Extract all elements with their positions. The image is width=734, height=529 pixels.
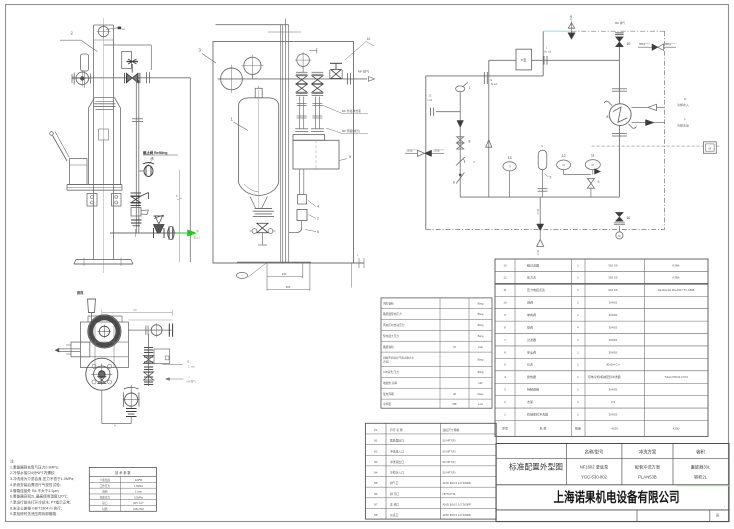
svg-text:304SS: 304SS xyxy=(609,350,618,354)
svg-text:30: 30 xyxy=(453,392,456,396)
svg-text:容积: 容积 xyxy=(102,490,108,494)
svg-text:许值): 许值) xyxy=(383,359,389,363)
svg-text:10: 10 xyxy=(367,37,371,41)
svg-text:冷却水入口: 冷却水入口 xyxy=(390,471,404,475)
svg-text:名称/型号: 名称/型号 xyxy=(585,449,604,456)
svg-text:5.管路连接处 Ra 不大于3.2μm;: 5.管路连接处 Ra 不大于3.2μm; xyxy=(10,488,59,493)
svg-text:11: 11 xyxy=(503,288,506,292)
svg-text:电加热 功率: 电加热 功率 xyxy=(383,381,397,385)
svg-text:70: 70 xyxy=(453,345,456,349)
svg-text:Barg: Barg xyxy=(478,301,484,305)
svg-text:容积2L: 容积2L xyxy=(694,474,708,481)
svg-text:r rod: r rod xyxy=(427,99,433,102)
svg-text:N1: N1 xyxy=(374,439,378,443)
svg-text:3: 3 xyxy=(598,180,600,184)
svg-text:压力表: 压力表 xyxy=(527,275,536,280)
svg-text:磁过滤器: 磁过滤器 xyxy=(527,262,539,267)
svg-text:特制阀组: 特制阀组 xyxy=(527,387,539,392)
svg-text:俯视: 俯视 xyxy=(77,290,84,295)
svg-text:蓄能器30L: 蓄能器30L xyxy=(691,464,711,471)
svg-text:N4 排气: N4 排气 xyxy=(187,380,197,384)
svg-text:50 NPT(F): 50 NPT(F) xyxy=(443,471,456,475)
svg-text:周围环境温度(不超过最大允: 周围环境温度(不超过最大允 xyxy=(383,355,414,359)
svg-text:304SS: 304SS xyxy=(609,412,618,416)
svg-text:N8: N8 xyxy=(374,513,378,517)
svg-text:2.冷却水接口4分NPT内螺纹;: 2.冷却水接口4分NPT内螺纹; xyxy=(10,470,56,475)
svg-text:MF 排气: MF 排气 xyxy=(615,21,626,25)
svg-text:连接尺寸规格: 连接尺寸规格 xyxy=(443,428,460,432)
svg-text:316 SS: 316 SS xyxy=(608,263,618,267)
svg-text:压力电接点表: 压力电接点表 xyxy=(527,287,545,292)
svg-text:N5: N5 xyxy=(374,481,378,485)
svg-text:304SS: 304SS xyxy=(609,338,618,342)
svg-text:6: 6 xyxy=(317,230,319,234)
svg-text:换热器: 换热器 xyxy=(527,374,536,379)
svg-text:4.系统安装后需进行气密性试验;: 4.系统安装后需进行气密性试验; xyxy=(10,482,61,487)
svg-text:4: 4 xyxy=(317,205,319,209)
svg-text:仪表口: 仪表口 xyxy=(390,513,399,517)
svg-text:FI: FI xyxy=(562,163,565,167)
svg-text:200水: 200水 xyxy=(407,148,414,152)
svg-text:PLAN53B: PLAN53B xyxy=(638,475,657,480)
svg-text:介质温度: 介质温度 xyxy=(100,478,111,482)
svg-text:NPT1/2"M: NPT1/2"M xyxy=(443,492,456,496)
svg-text:接口: 接口 xyxy=(102,501,108,505)
svg-text:Barg: Barg xyxy=(478,334,484,338)
svg-text:冲洗液入口: 冲洗液入口 xyxy=(390,449,404,453)
svg-text:上海诺果机电设备有限公司: 上海诺果机电设备有限公司 xyxy=(554,489,680,505)
svg-text:P1: P1 xyxy=(374,428,378,432)
svg-text:KSBA: KSBA xyxy=(672,276,679,280)
svg-text:冷却水出: 冷却水出 xyxy=(677,123,689,128)
svg-text:泵体冷却/机械密封冲洗器: 泵体冷却/机械密封冲洗器 xyxy=(588,374,621,379)
svg-text:工作压力: 工作压力 xyxy=(100,484,111,488)
svg-text:13: 13 xyxy=(508,156,512,160)
svg-text:数量: 数量 xyxy=(575,426,581,431)
svg-text:CS: CS xyxy=(611,400,615,404)
svg-text:8: 8 xyxy=(469,140,471,144)
svg-text:⊥: ⊥ xyxy=(356,253,359,257)
svg-text:闸阀: 闸阀 xyxy=(527,300,533,305)
svg-text:ANSI B16.5 1/2"300RF: ANSI B16.5 1/2"300RF xyxy=(443,513,472,517)
svg-text:蓄能器接口: 蓄能器接口 xyxy=(390,439,404,443)
svg-text:10: 10 xyxy=(627,42,631,46)
svg-text:E: E xyxy=(188,360,190,364)
svg-text:Reinforced 30s A517 T3, 1898: Reinforced 30s A517 T3, 1898 xyxy=(658,288,695,292)
svg-text:排 污口: 排 污口 xyxy=(390,492,399,496)
svg-text:容积: 容积 xyxy=(696,449,705,456)
svg-text:Barg: Barg xyxy=(478,370,484,374)
svg-text:50 NPT(F): 50 NPT(F) xyxy=(443,439,456,443)
svg-text:kW: kW xyxy=(479,381,483,385)
svg-text:Barg: Barg xyxy=(478,358,484,362)
svg-text:240: 240 xyxy=(282,272,287,276)
svg-text:机械密封冲洗罐: 机械密封冲洗罐 xyxy=(527,411,548,416)
svg-text:9.泵检修时先泄压再拆卸管路.: 9.泵检修时先泄压再拆卸管路. xyxy=(10,511,57,516)
svg-text:ANSI B16.5 1/2"300RF: ANSI B16.5 1/2"300RF xyxy=(443,502,472,506)
svg-text:预充压力: 预充压力 xyxy=(100,495,111,499)
svg-text:CIP清洗 压力: CIP清洗 压力 xyxy=(383,370,399,374)
svg-text:N6: N6 xyxy=(374,492,378,496)
svg-text:截止阀 Refilling: 截止阀 Refilling xyxy=(143,150,168,155)
svg-text:380: 380 xyxy=(286,285,291,289)
svg-text:MF 排气: MF 排气 xyxy=(358,69,369,74)
svg-text:安全阀: 安全阀 xyxy=(527,349,536,354)
svg-text:6.蓄能器容积2L,最高使用温度120℃;: 6.蓄能器容积2L,最高使用温度120℃; xyxy=(10,494,68,499)
svg-text:MF 预留(排污): MF 预留(排污) xyxy=(342,129,360,133)
svg-text:11: 11 xyxy=(591,154,595,158)
svg-text:XX: XX xyxy=(133,309,137,312)
svg-text:一: 一 xyxy=(241,275,244,278)
svg-text:N4: N4 xyxy=(374,471,378,475)
svg-text:排气口: 排气口 xyxy=(390,481,399,485)
svg-text:单向阀: 单向阀 xyxy=(527,312,536,317)
svg-text:符号 名 称: 符号 名 称 xyxy=(390,428,403,432)
svg-text:支架: 支架 xyxy=(527,399,533,404)
svg-text:Tubes,50X20 2.5 M: Tubes,50X20 2.5 M xyxy=(664,375,688,379)
svg-text:304SS: 304SS xyxy=(609,325,618,329)
svg-text:P泵: P泵 xyxy=(521,58,527,63)
svg-text:PI: PI xyxy=(592,163,595,167)
svg-text:冷却量: 冷却量 xyxy=(383,402,391,406)
svg-text:316 SS: 316 SS xyxy=(608,276,618,280)
svg-text:蓄能容积: 蓄能容积 xyxy=(383,345,394,349)
svg-text:Barg: Barg xyxy=(478,323,484,327)
svg-text:使用周期: 使用周期 xyxy=(383,392,394,396)
svg-text:蓄能器预充压力: 蓄能器预充压力 xyxy=(383,312,402,316)
svg-text:注:: 注: xyxy=(10,459,15,464)
svg-text:316L/304: 316L/304 xyxy=(133,507,144,511)
svg-text:N2: N2 xyxy=(374,449,378,453)
svg-text:30x3x+C-x: 30x3x+C-x xyxy=(606,363,620,367)
svg-text:N: N xyxy=(541,145,543,148)
svg-text:120℃: 120℃ xyxy=(135,478,143,482)
svg-text:50 NPT(F): 50 NPT(F) xyxy=(443,460,456,464)
svg-text:N7: N7 xyxy=(374,502,378,506)
svg-text:ANSI B16.5 1/2"300RF: ANSI B16.5 1/2"300RF xyxy=(443,481,472,485)
svg-text:7: 7 xyxy=(473,161,475,165)
svg-text:NF1602 釜底泵: NF1602 釜底泵 xyxy=(580,464,609,471)
svg-text:Barg: Barg xyxy=(478,312,484,316)
svg-text:Days: Days xyxy=(477,392,484,396)
svg-text:5: 5 xyxy=(550,176,552,180)
svg-text:3.冲洗液为介质自身,压力不低于1.0MPa;: 3.冲洗液为介质自身,压力不低于1.0MPa; xyxy=(10,476,74,481)
svg-text:300水: 300水 xyxy=(665,42,672,46)
svg-text:2 Liter: 2 Liter xyxy=(135,490,142,494)
svg-text:1: 1 xyxy=(469,86,471,90)
svg-text:10: 10 xyxy=(627,216,631,220)
svg-text:RB: RB xyxy=(453,402,457,406)
svg-text:7.泵运行前先打开冷却水, PT指示正常;: 7.泵运行前先打开冷却水, PT指示正常; xyxy=(10,499,71,504)
svg-text:8.未注公差按 GB/T1804-m 执行;: 8.未注公差按 GB/T1804-m 执行; xyxy=(10,505,62,510)
svg-text:50 NPT(F): 50 NPT(F) xyxy=(443,449,456,453)
svg-text:8: 8 xyxy=(607,115,609,119)
svg-text:flu. sol.: flu. sol. xyxy=(544,51,552,54)
svg-text:NPT 1/2": NPT 1/2" xyxy=(133,501,143,505)
svg-text:H: H xyxy=(114,425,116,428)
svg-text:配套冲洗方案: 配套冲洗方案 xyxy=(635,464,661,471)
svg-text:注 液口: 注 液口 xyxy=(390,502,399,506)
svg-text:316 SS: 316 SS xyxy=(608,288,618,292)
svg-text:2: 2 xyxy=(317,217,319,221)
svg-text:冲洗方案: 冲洗方案 xyxy=(639,449,657,456)
svg-text:仪表: 仪表 xyxy=(527,362,533,367)
svg-text:N3: N3 xyxy=(374,460,378,464)
svg-text:L. ww: L. ww xyxy=(188,365,195,369)
svg-text:12: 12 xyxy=(503,276,507,280)
svg-text:300水: 300水 xyxy=(639,42,646,46)
svg-text:304SS: 304SS xyxy=(609,313,618,317)
svg-text:YGC-530-002: YGC-530-002 xyxy=(581,475,608,480)
svg-text:12: 12 xyxy=(562,154,566,158)
svg-text:6: 6 xyxy=(453,181,455,185)
svg-text:阀: 阀 xyxy=(151,155,154,160)
svg-text:排污 1: 排污 1 xyxy=(194,236,201,240)
svg-text:10: 10 xyxy=(503,301,507,305)
svg-text:4250: 4250 xyxy=(673,427,680,431)
svg-text:304SS: 304SS xyxy=(609,388,618,392)
svg-text:TI: TI xyxy=(508,165,511,169)
svg-text:Low: Low xyxy=(478,402,483,406)
svg-text:内腔容积: 内腔容积 xyxy=(383,301,394,305)
svg-text:冷却水入: 冷却水入 xyxy=(677,102,689,107)
svg-text:序号: 序号 xyxy=(502,426,508,431)
svg-text:13: 13 xyxy=(503,263,507,267)
svg-text:泵内最大压力: 泵内最大压力 xyxy=(383,334,399,338)
svg-text:冲洗液出口: 冲洗液出口 xyxy=(390,460,404,464)
svg-text:200水: 200水 xyxy=(434,148,441,152)
svg-text:304SS: 304SS xyxy=(609,301,618,305)
svg-text:再充压时启动压力: 再充压时启动压力 xyxy=(383,323,405,327)
svg-text:球阀: 球阀 xyxy=(527,324,533,329)
svg-text:4150: 4150 xyxy=(611,427,618,431)
svg-text:技 术 参 数: 技 术 参 数 xyxy=(115,470,131,475)
svg-text:过滤器: 过滤器 xyxy=(527,337,536,342)
svg-text:1C: 1C xyxy=(429,95,432,98)
svg-text:材质: 材质 xyxy=(102,507,108,511)
svg-text:1.6MPa: 1.6MPa xyxy=(134,484,143,488)
svg-text:To ext.: To ext. xyxy=(491,83,499,86)
svg-text:名 称: 名 称 xyxy=(540,426,547,431)
svg-text:标准配置外型图: 标准配置外型图 xyxy=(509,462,563,472)
svg-text:MF 外接冲洗液: MF 外接冲洗液 xyxy=(342,109,361,113)
svg-text:1.蓄能器预充氮气压力0.9MPa;: 1.蓄能器预充氮气压力0.9MPa; xyxy=(10,464,59,469)
svg-text:Liter: Liter xyxy=(478,345,483,349)
svg-text:0.9MPa: 0.9MPa xyxy=(134,495,143,499)
svg-text:KSBA: KSBA xyxy=(672,263,679,267)
